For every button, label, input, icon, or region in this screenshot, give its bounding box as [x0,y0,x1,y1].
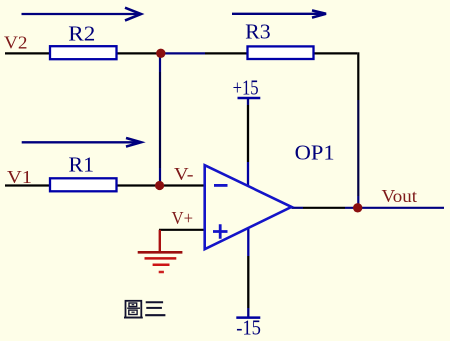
wire R1 to node B [117,184,161,186]
svg-text:R3: R3 [245,20,270,44]
current arrow top-right [232,10,326,17]
wire node B to inverting input [164,184,204,186]
svg-text:-15: -15 [236,316,261,340]
wire ground to non-inverting input [159,229,204,231]
current arrow top-left [22,8,142,21]
svg-text:V-: V- [174,164,194,184]
svg-text:R1: R1 [69,153,95,177]
svg-text:R2: R2 [68,22,95,46]
wire V1 to R1 [5,184,50,186]
output node junction dot [353,203,362,212]
wire node A to R3 [160,52,205,54]
op-amp minus symbol [214,184,228,187]
resistor R1 [50,178,117,191]
svg-text:OP1: OP1 [295,141,335,165]
svg-text:+15: +15 [233,76,259,100]
wire node A down to node B [159,53,161,72]
wire V2 to R2 [5,52,50,54]
op-amp OP1 triangle [205,165,292,249]
ground [138,230,183,272]
resistor R3 [248,46,314,59]
svg-text:V2: V2 [4,33,28,53]
svg-text:Vout: Vout [382,186,418,206]
svg-text:V+: V+ [172,208,194,228]
wire +15 rail to op-amp top [247,97,249,105]
wire R2 to node A [117,52,161,54]
op-amp plus symbol [213,224,228,239]
caption 圖三 (figure three), drawn as strokes [124,301,165,318]
wire corner down to output node [357,52,359,100]
current arrow middle-left [22,138,141,147]
+15 supply bar [238,97,261,100]
node B junction dot [155,181,164,190]
-15 supply bar [236,316,260,319]
wire R3 to corner [314,52,358,54]
node A junction dot [156,49,165,58]
wire op-amp bottom to -15 rail [247,228,249,256]
resistor R2 [50,46,117,59]
wire output to Vout [292,207,304,209]
svg-text:V1: V1 [7,167,32,187]
